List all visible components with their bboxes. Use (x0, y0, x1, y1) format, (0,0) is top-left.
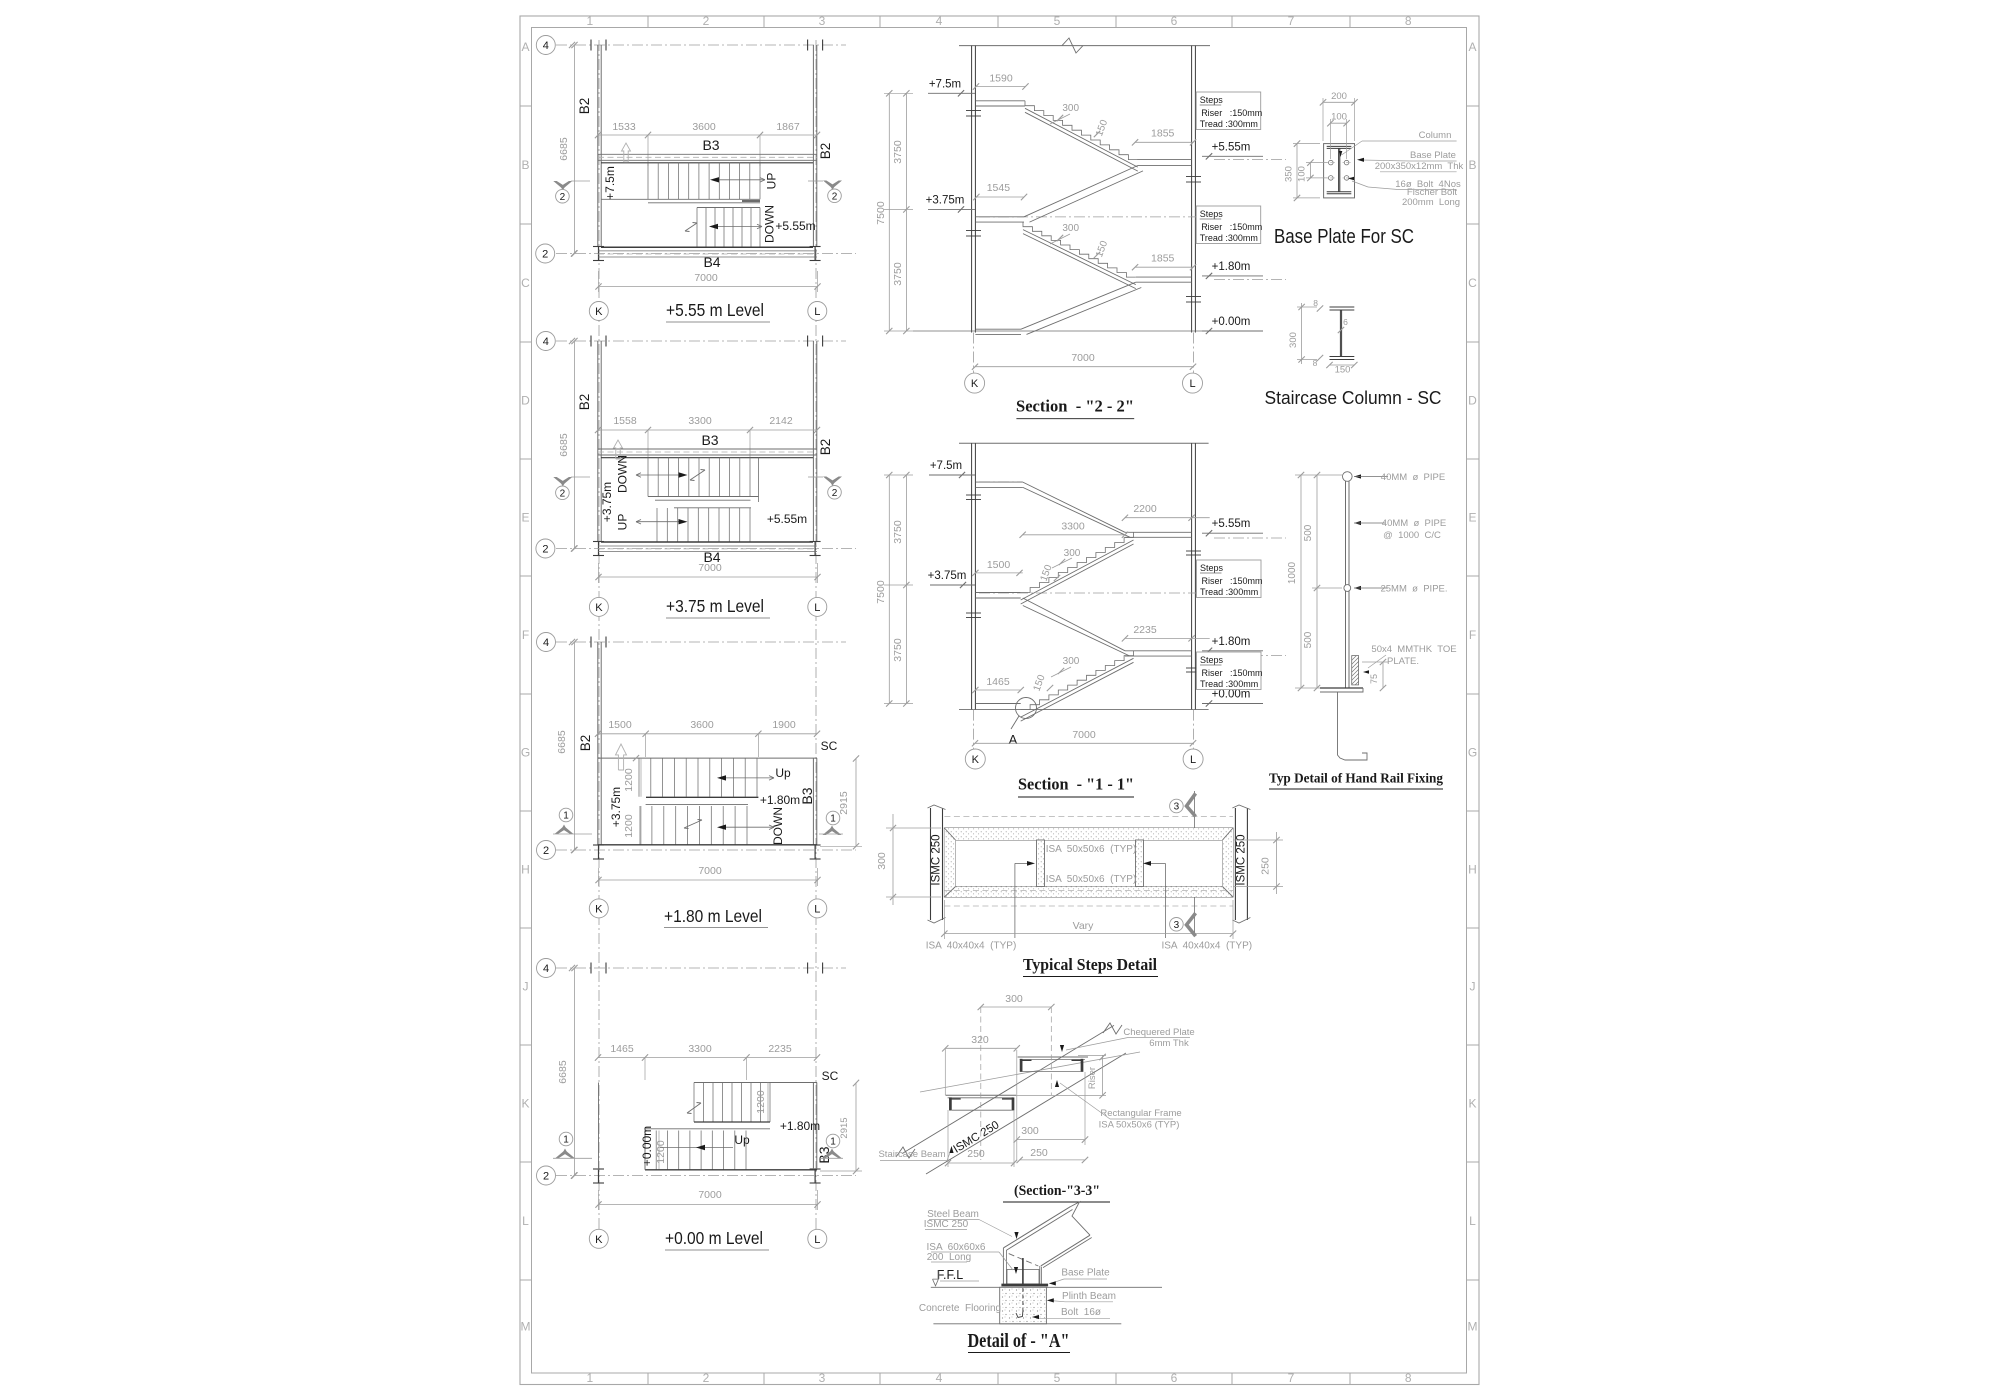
svg-text:A: A (521, 40, 529, 54)
plan +1.80m level: section marker 1 left (559, 808, 573, 822)
svg-text:B4: B4 (703, 254, 720, 270)
section 2-2: dimension 7500 (888, 93, 890, 331)
svg-text:6: 6 (1171, 1371, 1178, 1385)
plan +3.75m level: grid line 4 (556, 340, 846, 342)
section 2-2: landing +3.75 left (975, 216, 1024, 218)
svg-text:3: 3 (1174, 920, 1180, 931)
section 2-2: cut flight 3.75 to 1.80 (1023, 222, 1136, 277)
svg-text:E: E (521, 511, 529, 525)
svg-text:+7.5m: +7.5m (929, 78, 961, 90)
plan +0.00m level: dimension 1465/3300/2235 (598, 1057, 817, 1059)
svg-text:250: 250 (1260, 857, 1272, 875)
svg-text:1465: 1465 (986, 676, 1010, 688)
plan +5.55m level: grid line 2 (556, 253, 856, 255)
plan +5.55m level: DOWN arrow (713, 226, 762, 228)
svg-text:200: 200 (1331, 91, 1347, 102)
svg-text:Base Plate: Base Plate (1061, 1268, 1110, 1279)
svg-text:1533: 1533 (612, 121, 636, 133)
plan +0.00m level: upper flight bottom edge (694, 1121, 770, 1123)
svg-text:500: 500 (1303, 631, 1314, 648)
svg-text:4: 4 (543, 637, 549, 649)
plan +1.80m level: stair top edge (598, 757, 817, 759)
plan +3.75m level: grid line 2 (556, 548, 856, 550)
plan +5.55m level: beam B2 left (597, 45, 599, 247)
svg-text:3: 3 (1174, 802, 1180, 813)
section 1-1: dimension 2200 (1125, 517, 1210, 519)
svg-text:L: L (1469, 1214, 1476, 1228)
svg-text:2142: 2142 (769, 415, 793, 427)
svg-text:B3: B3 (702, 137, 719, 153)
plan +1.80m level: stair bottom edge (598, 844, 817, 846)
svg-text:1: 1 (830, 1137, 836, 1148)
svg-text:K: K (595, 306, 603, 318)
svg-text:+1.80m: +1.80m (780, 1119, 820, 1133)
svg-text:+5.55m: +5.55m (1212, 141, 1251, 153)
plan +0.00m level: grid line 4 (556, 967, 846, 969)
svg-text:UP: UP (765, 173, 779, 190)
svg-text:B2: B2 (578, 735, 593, 752)
grid line L vertical dash-dot (815, 40, 817, 1230)
svg-text:3750: 3750 (892, 140, 904, 164)
svg-text:320: 320 (971, 1034, 989, 1046)
svg-text:3750: 3750 (892, 638, 904, 662)
svg-text:6685: 6685 (556, 730, 568, 754)
plan +0.00m level: Up arrow (660, 1147, 733, 1149)
svg-text:M: M (521, 1320, 531, 1334)
plan +0.00m level: upper flight treads (694, 1083, 770, 1123)
svg-text:1500: 1500 (608, 719, 632, 731)
plan +1.80m level: beam B3 right (812, 758, 814, 845)
svg-text:Steps: Steps (1200, 209, 1224, 219)
section 3-3: inclined stringer line upper (908, 1029, 1108, 1150)
plan +5.55m level: grid bubble K (589, 302, 608, 321)
section 3-3: stringer break marks (896, 1147, 915, 1158)
hand rail: label 25mm pipe (1354, 586, 1361, 590)
section 2-2: flight 1.80 to 0.00 elevation (1021, 282, 1136, 329)
typical steps detail: divider ISA 2 (1136, 840, 1144, 887)
svg-text:2: 2 (542, 249, 548, 261)
section 3-3: dimension 250 right (1020, 1159, 1085, 1161)
section 3-3: dimension 320 (945, 1047, 1017, 1049)
svg-text:+1.80 m Level: +1.80 m Level (664, 906, 762, 926)
section 2-2: top beam break mark (1062, 38, 1083, 53)
svg-text:7000: 7000 (694, 272, 718, 284)
section 3-3: inclined stringer line lower (926, 1053, 1126, 1174)
plan +3.75m level: beam B2 right (812, 341, 814, 542)
plan +0.00m level: column ticks (590, 963, 592, 974)
plan +1.80m level: beam B2 left (597, 642, 599, 845)
base plate SC: dimension 200 (1323, 101, 1355, 103)
section 1-1: dimension 7000 (975, 742, 1193, 744)
plan +5.55m level: lower flight treads (697, 208, 760, 247)
svg-text:8: 8 (1313, 358, 1318, 368)
plan +5.55m level: dimension 7000 (599, 286, 818, 288)
svg-text:Tread :300mm: Tread :300mm (1200, 679, 1258, 689)
grid line K vertical dash-dot (598, 40, 600, 1230)
base plate SC: column H section (1327, 146, 1352, 193)
svg-text:2: 2 (543, 1171, 549, 1183)
svg-text:5: 5 (1054, 14, 1061, 28)
section 1-1: top beam line (959, 442, 1209, 444)
hand rail: label 40mm pipe top (1354, 474, 1361, 478)
plan +3.75m level: dimension 1558/3300/2142 (598, 429, 817, 431)
svg-text:+7.5m: +7.5m (930, 460, 962, 472)
svg-text:K: K (595, 903, 603, 915)
svg-text:SC: SC (821, 739, 838, 753)
svg-text:Typical Steps Detail: Typical Steps Detail (1023, 955, 1157, 974)
svg-text:K: K (595, 602, 603, 614)
svg-text:DOWN: DOWN (771, 807, 785, 845)
svg-text:1: 1 (586, 1371, 593, 1385)
plan +5.55m level: UP arrow (714, 179, 765, 181)
svg-text:2200: 2200 (1133, 503, 1157, 515)
svg-text:B2: B2 (818, 143, 833, 160)
plan +1.80m level: dimension 1200 upper (640, 758, 642, 797)
svg-text:1500: 1500 (987, 559, 1011, 571)
plan +1.80m level: DOWN arrow (725, 826, 774, 828)
svg-text:Plinth Beam: Plinth Beam (1062, 1291, 1116, 1302)
svg-text:B2: B2 (577, 98, 592, 115)
plan +3.75m level: beam B4 (601, 541, 813, 543)
plan +5.55m level: section marker 2 right (823, 181, 842, 189)
svg-text:40MM ø PIPE: 40MM ø PIPE (1382, 518, 1446, 529)
svg-text:Base Plate: Base Plate (1410, 150, 1456, 161)
svg-text:Steps: Steps (1200, 563, 1224, 573)
svg-text:+5.55 m Level: +5.55 m Level (666, 300, 764, 320)
plan +3.75m level: DOWN arrow (636, 474, 679, 476)
svg-text:L: L (1190, 754, 1196, 766)
svg-text:300: 300 (1062, 223, 1079, 234)
svg-text:2: 2 (543, 845, 549, 857)
plan +1.80m level: dimension 1500/3600/1900 (598, 733, 817, 735)
plan +1.80m level: section marker 1 right (826, 811, 840, 825)
sheet border outer frame (520, 16, 1479, 1385)
typical steps detail: ISMC 250 stringer left (930, 808, 932, 920)
section 1-1: dimension 3300 (1023, 534, 1125, 536)
plan +0.00m level: grid bubble 2 (571, 1172, 577, 1178)
section 3-3: dimension 300 bottom (1017, 1139, 1085, 1141)
svg-text:7500: 7500 (875, 201, 887, 225)
plan +0.00m level: stairwell edges (694, 1082, 817, 1084)
svg-text:2: 2 (832, 191, 838, 202)
section 1-1: flight 3.75 to 1.80 elevation (1023, 598, 1125, 651)
svg-text:50x4 MMTHK TOE: 50x4 MMTHK TOE (1371, 644, 1456, 655)
svg-text:ISMC 250: ISMC 250 (931, 834, 943, 885)
svg-text:J: J (523, 980, 529, 994)
svg-text:L: L (814, 1234, 820, 1246)
section 1-1: ground line (975, 703, 1020, 705)
svg-text:Column: Column (1419, 130, 1452, 141)
svg-text:+0.00m: +0.00m (1212, 316, 1251, 328)
plan +1.80m level: upper flight treads (639, 758, 757, 797)
section 2-2: grid bubble K (965, 373, 985, 393)
svg-text:6: 6 (1343, 317, 1348, 327)
plan +3.75m level: dimension 7000 (599, 576, 818, 578)
svg-text:4: 4 (936, 1371, 943, 1385)
svg-text:5: 5 (1054, 1371, 1061, 1385)
svg-text:300: 300 (1062, 103, 1079, 114)
plan +3.75m level: grid bubble K (589, 597, 608, 616)
typical steps detail: leader left ISA 40x40x4 (1014, 863, 1016, 938)
hand rail: mid rail pipe (1344, 585, 1351, 592)
plan +0.00m level: left edge (644, 1129, 646, 1170)
section 1-1: grid bubble K (965, 749, 985, 769)
plan +5.55m level: dimension 1533/3600/1867 (598, 134, 817, 136)
section 2-2: grid bubble L (1183, 373, 1203, 393)
section 1-1: dimension 1465 (975, 689, 1020, 691)
svg-text:6685: 6685 (558, 433, 570, 457)
svg-text:B3: B3 (799, 787, 815, 804)
svg-text:+5.55m: +5.55m (775, 219, 815, 233)
base plate SC: dimension 350 left (1296, 144, 1298, 198)
svg-text:1000: 1000 (1287, 561, 1298, 584)
plan +3.75m level: stair break mark upper (690, 470, 705, 480)
svg-text:Riser :150mm: Riser :150mm (1202, 576, 1263, 586)
svg-text:300: 300 (1288, 332, 1299, 348)
plan +1.80m level: dimension 1200 lower (640, 806, 642, 845)
base plate SC: plate outline (1324, 144, 1355, 198)
plan +0.00m level: stair bottom edge (645, 1169, 817, 1171)
section 2-2: dimension 1545 (976, 196, 1024, 198)
typical steps detail: section marker 3 bottom (1194, 897, 1196, 936)
svg-text:1867: 1867 (776, 121, 800, 133)
plan +5.55m level: lower flight top edge (697, 207, 760, 209)
plan +3.75m level: stair top edge (601, 457, 813, 459)
detail A: ground line (933, 1323, 1121, 1325)
svg-text:D: D (521, 394, 530, 408)
section 3-3: riser dimension (1102, 1055, 1104, 1096)
svg-text:40MM ø PIPE: 40MM ø PIPE (1381, 472, 1445, 483)
svg-text:Tread :300mm: Tread :300mm (1200, 587, 1258, 597)
svg-text:7500: 7500 (875, 580, 887, 604)
svg-text:Riser :150mm: Riser :150mm (1201, 222, 1262, 232)
plan +0.00m level: stair break mark (687, 1103, 701, 1113)
hand rail: top rail pipe (1343, 472, 1353, 482)
section 2-2: steps data box lower (1196, 206, 1261, 244)
plan +0.00m level: section marker 1 right (826, 1134, 840, 1148)
svg-text:Tread :300mm: Tread :300mm (1200, 119, 1258, 129)
svg-text:500: 500 (1303, 524, 1314, 541)
svg-text:+0.00m: +0.00m (1212, 689, 1251, 701)
svg-text:K: K (521, 1097, 529, 1111)
svg-text:E: E (1468, 511, 1476, 525)
section 2-2: level 0.00 extension line (913, 330, 1202, 332)
svg-text:3600: 3600 (692, 121, 716, 133)
svg-text:350: 350 (1284, 166, 1295, 182)
svg-text:3300: 3300 (688, 1043, 712, 1055)
section 3-3: center dashed line upper frame (1050, 1007, 1052, 1095)
typical steps detail: leader right ISA 40x40x4 (1164, 863, 1166, 938)
section 2-2: landing +7.5 left (975, 100, 1025, 102)
svg-text:Base Plate For SC: Base Plate For SC (1274, 226, 1414, 248)
plan +1.80m level: Up arrow (725, 777, 774, 779)
hand rail: dimension 500/500 (1316, 475, 1318, 688)
svg-text:2: 2 (542, 544, 548, 556)
plan +1.80m level: grid bubble K (589, 899, 608, 918)
plan +5.55m level: hollow direction arrow (622, 143, 631, 162)
svg-text:250: 250 (967, 1148, 985, 1160)
svg-text:1465: 1465 (610, 1043, 634, 1055)
section 2-2: dimension 3750/3750 (905, 93, 907, 331)
detail A: anchor bolt (1022, 1258, 1024, 1284)
svg-text:Section - "2 - 2": Section - "2 - 2" (1016, 397, 1134, 416)
typical steps detail: dimension 300 left (892, 814, 894, 905)
svg-text:SC: SC (822, 1069, 839, 1083)
svg-text:2: 2 (832, 488, 838, 499)
hand rail: dimension 1000 (1300, 475, 1302, 688)
plan +1.80m level: dimension 2915 (855, 759, 857, 847)
svg-text:K: K (972, 754, 980, 766)
svg-text:(Section-"3-3": (Section-"3-3" (1014, 1183, 1100, 1199)
plan +1.80m level: hollow direction arrow (616, 744, 627, 770)
plan +5.55m level: grid bubble 2 (571, 250, 577, 256)
svg-text:300: 300 (1063, 656, 1080, 667)
svg-text:ISMC 250: ISMC 250 (924, 1219, 969, 1230)
detail A: ISA 60x60x6 bracket (1007, 1270, 1039, 1284)
svg-text:+1.80m: +1.80m (1212, 261, 1251, 273)
plan +0.00m level: lower flight treads (645, 1131, 746, 1170)
plan +1.80m level: dimension 6685 (574, 642, 576, 850)
svg-text:3750: 3750 (892, 262, 904, 286)
plan +1.80m level: dimension 7000 (599, 879, 818, 881)
svg-text:1590: 1590 (989, 73, 1013, 85)
svg-text:4: 4 (543, 336, 549, 348)
section 1-1: column K (971, 443, 973, 709)
plan +1.80m level: stair break mark (684, 820, 702, 828)
plan +5.55m level: beam B4 (601, 246, 813, 248)
svg-text:+3.75m: +3.75m (928, 570, 967, 582)
svg-text:ISA 50x50x6 (TYP): ISA 50x50x6 (TYP) (1099, 1120, 1180, 1131)
svg-text:7000: 7000 (698, 1189, 722, 1201)
svg-text:B2: B2 (818, 439, 833, 456)
svg-text:@ 1000 C/C: @ 1000 C/C (1383, 530, 1441, 541)
typical steps detail: ISMC 250 stringer right (1234, 808, 1236, 920)
plan +3.75m level: grid bubble L (808, 597, 827, 616)
typical steps detail: dimension 250 right (1276, 832, 1278, 894)
svg-text:+0.00 m Level: +0.00 m Level (665, 1228, 763, 1248)
section 3-3: center dashed line lower frame (980, 1007, 982, 1160)
plan +5.55m level: section marker 2 left (553, 181, 572, 189)
svg-text:3300: 3300 (1061, 521, 1085, 533)
detail A: base plate (1001, 1284, 1048, 1287)
typical steps detail: dimension Vary (944, 933, 1233, 935)
svg-text:G: G (521, 746, 530, 760)
svg-text:7: 7 (1288, 1371, 1295, 1385)
svg-text:1855: 1855 (1151, 128, 1175, 140)
svg-text:6685: 6685 (557, 1060, 569, 1084)
section 3-3: upper step frame (1018, 1057, 1088, 1072)
svg-text:G: G (1468, 746, 1477, 760)
svg-text:+3.75m: +3.75m (926, 194, 965, 206)
svg-text:250: 250 (1030, 1147, 1048, 1159)
plan +3.75m level: UP arrow (636, 521, 679, 523)
border grid number ticks and labels (520, 14, 1479, 1385)
svg-text:1855: 1855 (1151, 252, 1175, 264)
svg-text:Steps: Steps (1200, 655, 1224, 665)
section 2-2: steps data box upper (1196, 92, 1261, 130)
section 2-2: cut flight 7.5 to 5.55 (1025, 101, 1138, 160)
svg-text:Typ Detail of Hand Rail Fixing: Typ Detail of Hand Rail Fixing (1269, 772, 1443, 787)
svg-text:3600: 3600 (690, 719, 714, 731)
base plate SC: dimension 100 top (1330, 122, 1346, 124)
section 1-1: column L (1191, 443, 1193, 709)
svg-text:3: 3 (819, 14, 826, 28)
plan +5.55m level: landing edge dark segment (742, 200, 760, 202)
section 3-3: dimension 250 left (948, 1162, 1014, 1164)
plan +3.75m level: grid bubble 2 (571, 545, 577, 551)
svg-text:150: 150 (1335, 365, 1351, 376)
svg-text:F.F.L: F.F.L (937, 1268, 963, 1282)
plan +1.80m level: grid bubble L (808, 899, 827, 918)
section 3-3: lower step frame (946, 1095, 1017, 1110)
svg-text:25MM ø PIPE.: 25MM ø PIPE. (1380, 584, 1447, 595)
svg-text:100: 100 (1297, 166, 1308, 182)
svg-text:A: A (1468, 40, 1476, 54)
section 1-1: dimension 7500 (888, 475, 890, 704)
svg-text:+1.80m: +1.80m (760, 793, 800, 807)
svg-text:6: 6 (1171, 14, 1178, 28)
plan +1.80m level: lower flight treads (640, 806, 747, 845)
svg-text:1: 1 (563, 1135, 569, 1146)
svg-text:300: 300 (1021, 1125, 1039, 1137)
svg-text:3750: 3750 (892, 520, 904, 544)
section 2-2: dimension 1855 lower (1135, 266, 1193, 268)
plan +1.80m level: grid line 2 (556, 849, 856, 851)
section 2-2: grid drop lines (973, 333, 975, 375)
section 1-1: grid drop lines (973, 710, 975, 749)
svg-text:C: C (521, 276, 530, 290)
svg-text:F: F (522, 628, 529, 642)
section 1-1: dimension 3750/3750 (905, 475, 907, 704)
svg-text:Riser: Riser (1087, 1067, 1098, 1089)
svg-text:UP: UP (616, 514, 630, 531)
plan +5.55m level: dimension 6685 (574, 45, 576, 254)
svg-text:1200: 1200 (755, 1090, 767, 1114)
plan +0.00m level: dimension 2915 (855, 1083, 857, 1171)
typical steps detail: section marker 3 top (1194, 791, 1196, 828)
section 1-1: landing +5.55 right (1125, 531, 1192, 533)
svg-text:Riser :150mm: Riser :150mm (1202, 668, 1263, 678)
hand rail: dimension 75 (1382, 662, 1384, 688)
svg-text:C: C (1468, 276, 1477, 290)
plan +0.00m level: grid bubble 4 (569, 965, 575, 971)
svg-text:6685: 6685 (558, 137, 570, 161)
svg-text:2: 2 (703, 14, 710, 28)
section 1-1: cut flight 0.00 to 1.80 (1021, 651, 1134, 710)
svg-text:Vary: Vary (1073, 920, 1095, 932)
svg-text:B3: B3 (701, 432, 718, 448)
plan +0.00m level: grid bubble L (808, 1229, 827, 1248)
section 2-2: column L (1191, 46, 1193, 333)
svg-text:Riser :150mm: Riser :150mm (1201, 108, 1262, 118)
svg-text:+3.75m: +3.75m (609, 787, 623, 827)
detail A: concrete pedestal (1000, 1287, 1047, 1324)
svg-text:+0.00m: +0.00m (640, 1126, 654, 1166)
section 2-2: dimension 7000 (975, 366, 1193, 368)
section 2-2: ground line (975, 328, 1021, 330)
svg-text:L: L (1189, 378, 1195, 390)
plan +3.75m level: beam B3 (598, 448, 817, 450)
plan +5.55m level: grid line 4 (556, 44, 846, 46)
svg-text:Rectangular Frame: Rectangular Frame (1100, 1108, 1181, 1119)
svg-text:L: L (814, 903, 820, 915)
svg-text:ISMC 250: ISMC 250 (1236, 834, 1248, 885)
svg-text:M: M (1468, 1320, 1478, 1334)
svg-text:DOWN: DOWN (616, 455, 630, 493)
plan +3.75m level: lower flight treads (657, 508, 750, 542)
base plate SC: dimension 100 left (1309, 163, 1311, 178)
section 2-2: column K (971, 46, 973, 333)
